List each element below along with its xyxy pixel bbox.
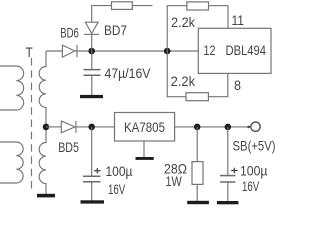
svg-text:BD6: BD6 xyxy=(60,25,79,41)
svg-text:BD5: BD5 xyxy=(58,139,79,155)
svg-text:100µ: 100µ xyxy=(240,163,268,179)
wire node B up to top 2.2k xyxy=(167,6,187,51)
wire BD5 to KA7805 input xyxy=(76,126,115,128)
resistor 2.2k (bottom) xyxy=(186,93,208,101)
node A (BD6/BD7/47u junction) xyxy=(88,48,95,55)
terminal SB circle xyxy=(251,122,260,131)
wire BD6 to node A and on to DBL494 pin 12 xyxy=(75,50,199,52)
transformer core (dashed) xyxy=(31,58,33,190)
transformer secondary winding bottom xyxy=(39,127,46,194)
node F (right 100u junction) xyxy=(225,124,232,131)
wire KA7805 output rail to SB terminal xyxy=(175,126,251,128)
svg-text:SB(+5V): SB(+5V) xyxy=(233,138,276,154)
wire node D down to left 100u cap xyxy=(91,127,93,176)
ground (28R) xyxy=(187,201,209,204)
diode BD7 xyxy=(84,22,99,34)
transformer T primary winding top xyxy=(0,66,24,110)
wire left 100u cap to ground xyxy=(91,182,93,201)
wire node E down to 28R xyxy=(196,127,198,162)
wire secondary top to BD6 xyxy=(46,50,62,52)
ground (KA7805) xyxy=(136,157,154,160)
wire BD7 cathode to node A xyxy=(91,34,93,51)
ground (left 100u cap) xyxy=(81,200,105,203)
wire node F down to right 100u cap xyxy=(227,127,229,175)
wire nub at SB terminal xyxy=(247,126,250,129)
wire node A down to 47u cap xyxy=(91,51,93,69)
svg-text:16V: 16V xyxy=(108,181,126,197)
capacitor 47u/16V xyxy=(84,70,101,76)
capacitor 100u/16V (right) xyxy=(220,176,235,182)
svg-text:DBL494: DBL494 xyxy=(226,42,267,58)
wire node C to BD5 xyxy=(46,126,61,128)
svg-text:BD7: BD7 xyxy=(104,22,127,38)
wire top-left resistor right lead (dangling) xyxy=(132,5,152,7)
plus sign (right 100u) xyxy=(231,168,237,174)
svg-text:2.2k: 2.2k xyxy=(171,73,196,89)
svg-text:16V: 16V xyxy=(242,178,260,194)
svg-text:2.2k: 2.2k xyxy=(171,14,196,30)
node B (pin 12 rail junction) xyxy=(164,48,171,55)
svg-text:100µ: 100µ xyxy=(106,163,133,179)
plus sign (left 100u) xyxy=(94,168,100,174)
regulator U2 KA7805 xyxy=(115,113,175,142)
svg-text:8: 8 xyxy=(234,77,241,93)
svg-text:12: 12 xyxy=(204,42,216,58)
wire 28R to ground xyxy=(196,184,198,201)
IC U1 DBL494 xyxy=(198,28,271,73)
wire bottom 2.2k to DBL494 pin 8 xyxy=(208,73,227,96)
resistor (top-left, unlabeled) xyxy=(112,2,133,10)
svg-text:11: 11 xyxy=(232,12,245,28)
capacitor 100u/16V (left) xyxy=(83,176,101,182)
ground (47u cap) xyxy=(80,95,103,98)
wire right 100u cap to ground xyxy=(227,182,229,201)
transformer T primary winding bottom xyxy=(0,142,23,183)
resistor 2.2k (top) xyxy=(187,2,209,10)
diode BD5 xyxy=(61,121,76,133)
wire BD7 anode up to top-left resistor xyxy=(92,6,112,23)
svg-text:47µ/16V: 47µ/16V xyxy=(105,65,152,81)
node E (28R junction) xyxy=(194,124,201,131)
wire top 2.2k to DBL494 pin 11 xyxy=(209,6,229,29)
resistor 28R 1W xyxy=(192,162,203,185)
svg-text:1W: 1W xyxy=(166,173,183,189)
diode BD6 xyxy=(62,45,77,57)
svg-text:T: T xyxy=(26,44,33,60)
ground (right 100u cap) xyxy=(217,201,238,204)
ground (transformer secondary) xyxy=(37,194,55,198)
wire 47u cap to ground xyxy=(91,75,93,95)
transformer secondary winding top xyxy=(39,51,46,127)
node D (KA7805 input junction) xyxy=(88,124,95,131)
svg-text:KA7805: KA7805 xyxy=(124,119,165,135)
wire node B down to bottom 2.2k xyxy=(167,51,186,97)
node C (secondary center junction) xyxy=(43,124,50,131)
wire KA7805 ground pin xyxy=(143,141,145,157)
